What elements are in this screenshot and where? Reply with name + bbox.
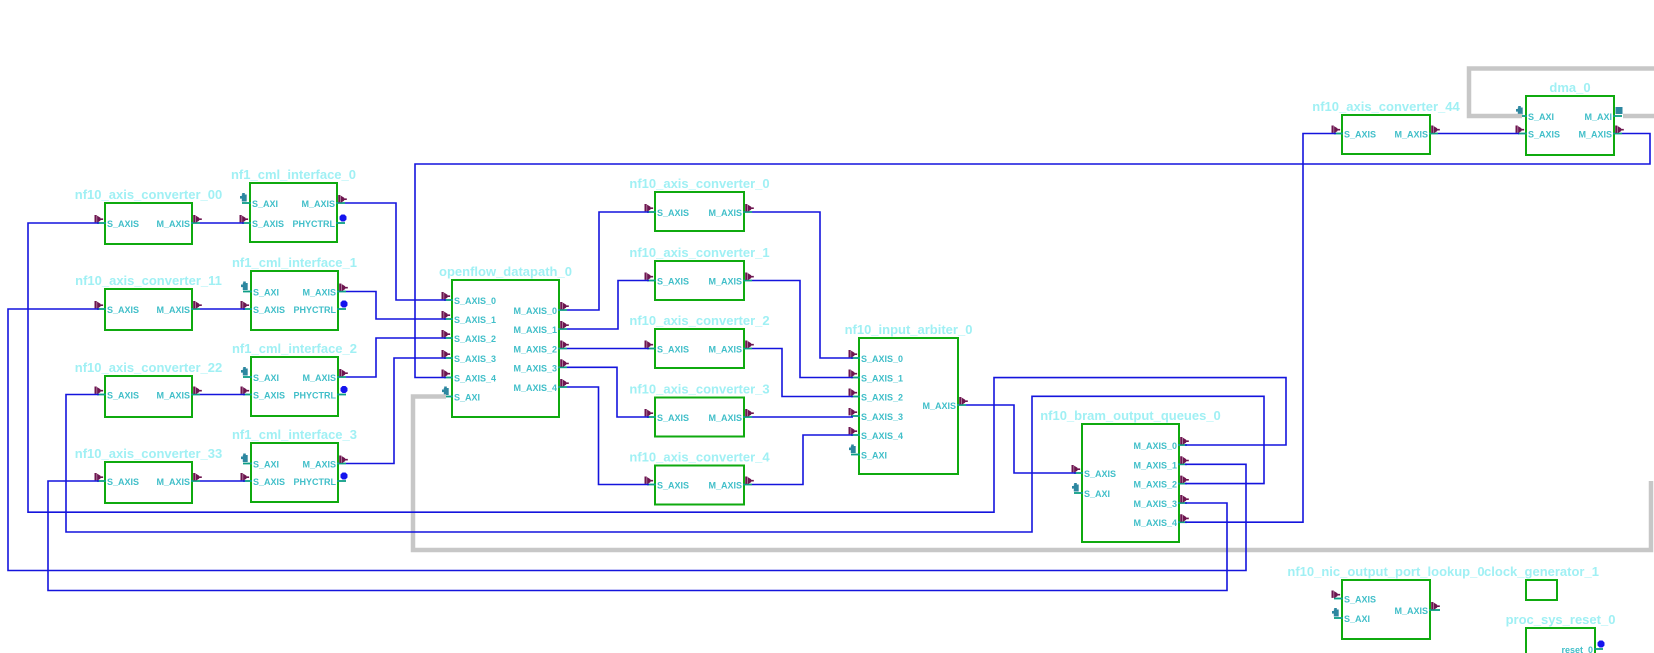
svg-text:S_AXIS_0: S_AXIS_0 [454,296,496,306]
svg-text:S_AXIS_1: S_AXIS_1 [861,374,903,384]
pin reset_0 (right) of proc_sys_reset_0 [1561,641,1604,653]
pin S_AXI (left) of nf10_input_arbiter_0 [849,445,887,461]
wire cml_interface_3 M_AXIS to openflow S_AXIS_3 [346,358,446,464]
pin M_AXIS (right) of nf1_cml_interface_1 [302,284,347,298]
block nf10_axis_converter_3 [629,382,769,437]
pin S_AXIS (left) of nf1_cml_interface_3 [241,473,286,487]
svg-text:S_AXIS: S_AXIS [657,413,689,423]
pin S_AXIS_2 (left) of nf10_input_arbiter_0 [849,389,904,403]
svg-text:M_AXI: M_AXI [1584,112,1612,122]
svg-text:S_AXIS_2: S_AXIS_2 [861,393,903,403]
block nf1_cml_interface_0 [231,167,356,242]
svg-text:nf1_cml_interface_3: nf1_cml_interface_3 [232,427,357,442]
svg-text:M_AXIS_1: M_AXIS_1 [1133,460,1177,470]
svg-text:M_AXIS_4: M_AXIS_4 [1133,518,1177,528]
block openflow_datapath_0 [439,264,572,417]
pin M_AXIS (right) of nf10_nic_output_port_lookup_0 [1394,602,1440,616]
svg-text:nf10_axis_converter_3: nf10_axis_converter_3 [629,382,769,397]
block nf10_bram_output_queues_0 [1040,408,1221,542]
pin S_AXIS (left) of nf10_axis_converter_22 [95,387,140,401]
svg-text:M_AXIS: M_AXIS [708,208,742,218]
pin S_AXIS (left) of nf10_axis_converter_3 [645,409,690,423]
svg-text:M_AXIS: M_AXIS [156,219,190,229]
svg-text:M_AXIS: M_AXIS [708,413,742,423]
block nf1_cml_interface_2 [232,341,357,416]
block nf10_axis_converter_2 [629,313,769,368]
wire bram M_AXIS_4 to converter_44 S_AXIS [1185,134,1336,523]
pin S_AXIS (left) of nf10_axis_converter_2 [645,341,690,355]
wire converter_00 M_AXIS to cml_interface_0 S_AXIS [200,222,244,224]
svg-text:M_AXIS: M_AXIS [1394,606,1428,616]
svg-text:S_AXIS: S_AXIS [657,481,689,491]
wire gray: dma_0 M_AXI to off-page [1623,114,1654,119]
svg-text:nf1_cml_interface_2: nf1_cml_interface_2 [232,341,357,356]
pin M_AXIS (right) of nf10_input_arbiter_0 [922,397,967,411]
svg-text:nf10_axis_converter_0: nf10_axis_converter_0 [629,176,769,191]
svg-text:S_AXI: S_AXI [1084,489,1110,499]
wire bram M_AXIS_0 to converter_00 S_AXIS [28,223,1286,512]
wire converter_22 M_AXIS to cml_interface_2 S_AXIS [200,394,245,396]
svg-text:M_AXIS: M_AXIS [708,277,742,287]
pin S_AXIS (left) of nf10_axis_converter_44 [1332,126,1377,140]
pin M_AXIS (right) of nf10_axis_converter_3 [708,409,753,423]
pin S_AXIS (left) of nf10_axis_converter_0 [645,204,690,218]
wire gray: off-page to dma_0 S_AXI [1469,69,1654,117]
pin M_AXIS (right) of nf1_cml_interface_2 [302,369,347,383]
pin S_AXIS (left) of nf10_bram_output_queues_0 [1072,465,1117,479]
svg-text:proc_sys_reset_0: proc_sys_reset_0 [1506,612,1616,627]
svg-text:M_AXIS: M_AXIS [922,401,956,411]
pin S_AXI (left) of nf1_cml_interface_3 [241,454,279,470]
pin M_AXIS (right) of dma_0 [1578,126,1623,140]
pin S_AXIS_2 (left) of openflow_datapath_0 [442,330,497,344]
svg-text:S_AXI: S_AXI [253,373,279,383]
wire bram M_AXIS_1 to converter_11 S_AXIS [8,309,1246,571]
block nf10_axis_converter_4 [629,450,770,505]
wire converter_2 M_AXIS to arbiter S_AXIS_2 [752,349,853,397]
svg-text:M_AXIS_0: M_AXIS_0 [1133,441,1177,451]
block nf10_axis_converter_44 [1312,99,1460,154]
svg-text:S_AXIS: S_AXIS [1528,130,1560,140]
pin M_AXIS_3 (right) of nf10_bram_output_queues_0 [1133,495,1188,509]
svg-text:M_AXIS_0: M_AXIS_0 [513,306,557,316]
pin S_AXIS (left) of nf10_axis_converter_11 [95,301,140,315]
pin M_AXIS (right) of nf10_axis_converter_0 [708,204,753,218]
svg-text:M_AXIS_1: M_AXIS_1 [513,325,557,335]
pin S_AXI (left) of nf10_bram_output_queues_0 [1072,483,1110,499]
svg-text:PHYCTRL: PHYCTRL [294,477,337,487]
svg-text:M_AXIS_4: M_AXIS_4 [513,383,557,393]
pin M_AXIS (right) of nf10_axis_converter_11 [156,301,201,315]
pin M_AXIS (right) of nf10_axis_converter_44 [1394,126,1439,140]
pin M_AXIS (right) of nf10_axis_converter_33 [156,473,201,487]
svg-text:S_AXIS_1: S_AXIS_1 [454,315,496,325]
svg-text:nf10_input_arbiter_0: nf10_input_arbiter_0 [845,322,973,337]
pin M_AXIS_2 (right) of nf10_bram_output_queues_0 [1133,476,1188,490]
svg-text:PHYCTRL: PHYCTRL [293,219,336,229]
svg-text:nf1_cml_interface_1: nf1_cml_interface_1 [232,255,357,270]
block proc_sys_reset_0 [1506,612,1616,653]
pin S_AXIS (left) of nf1_cml_interface_1 [241,301,286,315]
wire converter_4 M_AXIS to arbiter S_AXIS_4 [752,435,853,485]
pin S_AXIS_0 (left) of nf10_input_arbiter_0 [849,350,904,364]
pin PHYCTRL (right) of nf1_cml_interface_0 [293,215,347,230]
svg-text:M_AXIS_2: M_AXIS_2 [1133,480,1177,490]
wire openflow M_AXIS_2 to converter_2 S_AXIS [567,348,649,350]
svg-text:nf10_bram_output_queues_0: nf10_bram_output_queues_0 [1040,408,1221,423]
block nf10_axis_converter_0 [629,176,769,231]
svg-text:S_AXIS: S_AXIS [107,391,139,401]
pin S_AXIS (left) of nf10_axis_converter_1 [645,273,690,287]
pin M_AXIS (right) of nf10_axis_converter_1 [708,273,753,287]
pin PHYCTRL (right) of nf1_cml_interface_2 [294,386,348,401]
pin S_AXI (left) of nf10_nic_output_port_lookup_0 [1332,608,1370,624]
pin S_AXIS (left) of nf1_cml_interface_2 [241,387,286,401]
pin M_AXIS_4 (right) of openflow_datapath_0 [513,379,568,393]
svg-text:dma_0: dma_0 [1549,80,1590,95]
svg-text:S_AXI: S_AXI [1528,112,1554,122]
svg-text:M_AXIS: M_AXIS [1394,130,1428,140]
svg-text:PHYCTRL: PHYCTRL [294,391,337,401]
pin S_AXIS_0 (left) of openflow_datapath_0 [442,292,497,306]
svg-text:nf10_axis_converter_33: nf10_axis_converter_33 [75,446,222,461]
svg-text:S_AXIS_3: S_AXIS_3 [454,354,496,364]
svg-text:openflow_datapath_0: openflow_datapath_0 [439,264,572,279]
svg-text:S_AXIS: S_AXIS [657,277,689,287]
svg-text:clock_generator_1: clock_generator_1 [1484,564,1599,579]
wire converter_33 M_AXIS to cml_interface_3 S_AXIS [200,480,245,482]
pin S_AXIS_4 (left) of openflow_datapath_0 [442,370,497,384]
svg-text:reset_0: reset_0 [1561,645,1593,653]
block nf10_input_arbiter_0 [845,322,973,474]
wire converter_3 M_AXIS to arbiter S_AXIS_3 [752,416,853,418]
pin S_AXIS (left) of nf10_axis_converter_33 [95,473,140,487]
pin M_AXIS_1 (right) of nf10_bram_output_queues_0 [1133,456,1188,470]
svg-text:nf10_axis_converter_2: nf10_axis_converter_2 [629,313,769,328]
wire openflow M_AXIS_4 to converter_4 S_AXIS [567,387,649,485]
wire openflow M_AXIS_3 to converter_3 S_AXIS [567,367,649,417]
pin M_AXIS_3 (right) of openflow_datapath_0 [513,359,568,373]
svg-text:nf10_axis_converter_11: nf10_axis_converter_11 [75,273,222,288]
pin M_AXIS (right) of nf10_axis_converter_00 [156,215,201,229]
svg-text:S_AXIS: S_AXIS [107,477,139,487]
svg-text:M_AXIS: M_AXIS [302,460,336,470]
svg-text:S_AXI: S_AXI [252,199,278,209]
pin M_AXIS (right) of nf1_cml_interface_3 [302,456,347,470]
svg-text:nf10_axis_converter_4: nf10_axis_converter_4 [629,450,770,465]
svg-text:S_AXIS: S_AXIS [252,219,284,229]
wire arbiter M_AXIS to bram S_AXIS [966,405,1076,473]
pin M_AXIS_0 (right) of nf10_bram_output_queues_0 [1133,437,1188,451]
pin PHYCTRL (right) of nf1_cml_interface_1 [294,301,348,316]
svg-text:S_AXI: S_AXI [253,288,279,298]
block clock_generator_1 [1484,564,1599,600]
pin M_AXIS_2 (right) of openflow_datapath_0 [513,341,568,355]
svg-text:S_AXIS: S_AXIS [657,208,689,218]
wire converter_11 M_AXIS to cml_interface_1 S_AXIS [200,308,245,310]
pin S_AXIS_4 (left) of nf10_input_arbiter_0 [849,427,904,441]
pin M_AXIS (right) of nf10_axis_converter_2 [708,341,753,355]
block nf1_cml_interface_3 [232,427,357,502]
svg-text:M_AXIS: M_AXIS [301,199,335,209]
svg-text:S_AXIS: S_AXIS [657,345,689,355]
pin S_AXIS (left) of dma_0 [1516,126,1561,140]
pin S_AXI (left) of nf1_cml_interface_2 [241,367,279,383]
wire bram M_AXIS_2 to converter_22 S_AXIS [66,395,1264,533]
svg-text:S_AXIS: S_AXIS [253,477,285,487]
svg-text:S_AXIS_3: S_AXIS_3 [861,412,903,422]
block nf1_cml_interface_1 [232,255,357,330]
svg-text:S_AXIS_4: S_AXIS_4 [454,374,496,384]
svg-text:S_AXIS: S_AXIS [253,391,285,401]
pin S_AXIS_3 (left) of nf10_input_arbiter_0 [849,408,904,422]
pin S_AXIS_3 (left) of openflow_datapath_0 [442,350,497,364]
svg-text:S_AXI: S_AXI [861,451,887,461]
pin M_AXIS (right) of nf1_cml_interface_0 [301,195,346,209]
pin M_AXI (right) of dma_0 [1584,107,1622,122]
svg-text:nf10_nic_output_port_lookup_0: nf10_nic_output_port_lookup_0 [1287,564,1484,579]
block nf10_axis_converter_11 [75,273,222,330]
svg-text:S_AXIS_2: S_AXIS_2 [454,334,496,344]
pin S_AXI (left) of nf1_cml_interface_1 [241,282,279,298]
wire openflow M_AXIS_0 to converter_0 S_AXIS [567,212,649,310]
svg-text:M_AXIS_2: M_AXIS_2 [513,345,557,355]
svg-text:S_AXIS_0: S_AXIS_0 [861,354,903,364]
wire dma_0 M_AXIS to openflow S_AXIS_4 [415,134,1650,378]
pin M_AXIS_1 (right) of openflow_datapath_0 [513,321,568,335]
block nf10_axis_converter_33 [75,446,222,503]
svg-text:S_AXIS: S_AXIS [1084,469,1116,479]
pin S_AXIS (left) of nf10_axis_converter_4 [645,477,690,491]
pin S_AXI (left) of openflow_datapath_0 [442,387,480,403]
pin S_AXIS (left) of nf1_cml_interface_0 [240,215,285,229]
wire gray: off-page to openflow_datapath_0 S_AXI [413,397,1651,551]
block dma_0 [1526,80,1614,155]
wire bram M_AXIS_3 to converter_33 S_AXIS [48,481,1227,591]
block nf10_axis_converter_00 [75,187,222,244]
svg-text:S_AXI: S_AXI [1344,614,1370,624]
pin S_AXI (left) of nf1_cml_interface_0 [240,193,278,209]
svg-text:PHYCTRL: PHYCTRL [294,305,337,315]
pin S_AXIS_1 (left) of nf10_input_arbiter_0 [849,370,904,384]
wire cml_interface_1 M_AXIS to openflow S_AXIS_1 [346,292,446,320]
pin M_AXIS_0 (right) of openflow_datapath_0 [513,302,568,316]
svg-text:M_AXIS: M_AXIS [302,373,336,383]
svg-text:nf10_axis_converter_22: nf10_axis_converter_22 [75,360,222,375]
svg-text:M_AXIS: M_AXIS [708,481,742,491]
pin S_AXI (left) of dma_0 [1516,106,1554,122]
pin S_AXIS (left) of nf10_nic_output_port_lookup_0 [1332,591,1377,605]
block nf10_axis_converter_22 [75,360,222,417]
svg-text:S_AXIS: S_AXIS [107,219,139,229]
svg-text:nf10_axis_converter_1: nf10_axis_converter_1 [629,245,769,260]
wire cml_interface_0 M_AXIS to openflow S_AXIS_0 [345,203,446,300]
pin M_AXIS (right) of nf10_axis_converter_22 [156,387,201,401]
wire cml_interface_2 M_AXIS to openflow S_AXIS_2 [346,338,446,377]
block nf10_nic_output_port_lookup_0 [1287,564,1484,639]
svg-text:S_AXI: S_AXI [454,393,480,403]
svg-text:S_AXIS: S_AXIS [107,305,139,315]
svg-text:S_AXI: S_AXI [253,460,279,470]
wire converter_1 M_AXIS to arbiter S_AXIS_1 [752,281,853,378]
block nf10_axis_converter_1 [629,245,769,300]
svg-text:M_AXIS: M_AXIS [156,477,190,487]
pin M_AXIS_4 (right) of nf10_bram_output_queues_0 [1133,514,1188,528]
svg-text:nf10_axis_converter_00: nf10_axis_converter_00 [75,187,222,202]
svg-text:M_AXIS: M_AXIS [156,391,190,401]
svg-text:M_AXIS: M_AXIS [302,288,336,298]
wire converter_44 M_AXIS to dma_0 S_AXIS [1438,133,1519,135]
svg-text:nf1_cml_interface_0: nf1_cml_interface_0 [231,167,356,182]
pin M_AXIS (right) of nf10_axis_converter_4 [708,477,753,491]
svg-text:S_AXIS: S_AXIS [253,305,285,315]
svg-text:M_AXIS: M_AXIS [1578,130,1612,140]
svg-text:S_AXIS_4: S_AXIS_4 [861,431,903,441]
pin S_AXIS_1 (left) of openflow_datapath_0 [442,311,497,325]
svg-text:M_AXIS_3: M_AXIS_3 [1133,499,1177,509]
svg-text:nf10_axis_converter_44: nf10_axis_converter_44 [1312,99,1460,114]
svg-text:S_AXIS: S_AXIS [1344,595,1376,605]
wire openflow M_AXIS_1 to converter_1 S_AXIS [567,281,649,330]
pin PHYCTRL (right) of nf1_cml_interface_3 [294,473,348,488]
svg-text:M_AXIS: M_AXIS [708,345,742,355]
wire converter_0 M_AXIS to arbiter S_AXIS_0 [752,212,853,358]
svg-text:S_AXIS: S_AXIS [1344,130,1376,140]
pin S_AXIS (left) of nf10_axis_converter_00 [95,215,140,229]
svg-text:M_AXIS_3: M_AXIS_3 [513,363,557,373]
svg-text:M_AXIS: M_AXIS [156,305,190,315]
